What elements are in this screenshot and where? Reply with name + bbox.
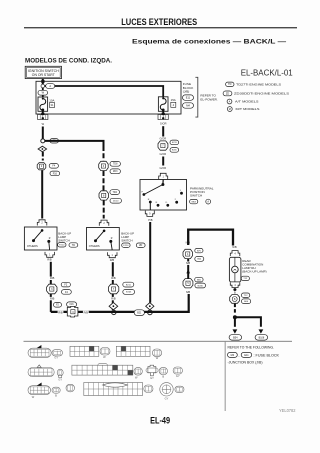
svg-text:R/B: R/B (111, 297, 116, 301)
svg-text:TD: TD (72, 244, 75, 247)
svg-text:TD2: TD2 (113, 192, 118, 194)
svg-text:M4: M4 (231, 354, 235, 357)
svg-text:G/OR: G/OR (159, 152, 166, 156)
svg-text:R/B: R/B (47, 258, 52, 262)
svg-text:F16: F16 (53, 172, 58, 175)
svg-text:GY: GY (54, 356, 58, 360)
svg-text:R/B: R/B (50, 297, 55, 301)
svg-text:ZD10: ZD10 (113, 200, 119, 202)
svg-text:Esquema de conexiones — BACK/L: Esquema de conexiones — BACK/L — (132, 39, 286, 46)
svg-text:A: A (49, 84, 51, 88)
svg-text:E205: E205 (172, 150, 178, 152)
svg-text:(J/B): (J/B) (183, 90, 190, 94)
svg-text:SWITCH: SWITCH (190, 194, 202, 198)
svg-text:P/B: P/B (148, 218, 152, 222)
svg-text:R/B: R/B (58, 310, 63, 314)
svg-text:SWITCH: SWITCH (121, 238, 132, 242)
svg-text:15A: 15A (171, 98, 176, 102)
svg-text:G/OR: G/OR (159, 137, 166, 141)
svg-text:E11: E11 (244, 354, 249, 357)
svg-text:ZD: ZD (139, 244, 142, 247)
svg-text:EL-49: EL-49 (150, 415, 170, 425)
svg-text:ON OR START: ON OR START (32, 73, 55, 77)
svg-text:TD: TD (228, 83, 232, 86)
svg-text:B54: B54 (233, 336, 238, 339)
svg-text:OTHERS: OTHERS (27, 244, 38, 248)
svg-text:R/B: R/B (111, 276, 116, 280)
svg-text:M: M (229, 108, 231, 111)
svg-text:GY: GY (165, 396, 169, 400)
svg-text:B: B (162, 375, 164, 379)
svg-text:GY: GY (176, 374, 180, 378)
svg-text:E211: E211 (126, 284, 132, 286)
svg-text:ZD3: ZD3 (113, 171, 118, 173)
svg-text:B108: B108 (259, 336, 265, 339)
svg-text:R/B: R/B (84, 310, 89, 314)
svg-text:EL-POWER.: EL-POWER. (200, 97, 218, 101)
svg-text:GY: GY (150, 376, 154, 380)
svg-text:E205: E205 (126, 292, 132, 294)
svg-text:B206: B206 (198, 285, 204, 287)
svg-text:B: B (55, 393, 57, 397)
svg-text:OTHERS: OTHERS (89, 244, 100, 248)
svg-text:LUCES EXTERIORES: LUCES EXTERIORES (121, 17, 197, 28)
svg-text:E11: E11 (186, 96, 191, 100)
svg-text:G/OR: G/OR (159, 166, 166, 170)
svg-text:R/B: R/B (50, 276, 55, 280)
svg-text:REFER TO THE FOLLOWING.: REFER TO THE FOLLOWING. (228, 346, 275, 350)
svg-text:(BACK-UP LAMP): (BACK-UP LAMP) (242, 269, 266, 273)
svg-text:ZD30DDTi ENGINE MODELS: ZD30DDTi ENGINE MODELS (234, 92, 289, 96)
svg-text:M4: M4 (186, 103, 190, 107)
svg-text:N/B: N/B (186, 290, 191, 294)
svg-text:B21: B21 (137, 312, 142, 314)
svg-text:B: B (234, 291, 236, 295)
svg-text:10A: 10A (49, 98, 54, 102)
svg-text:F210: F210 (59, 245, 65, 247)
svg-text:N/B: N/B (186, 261, 191, 265)
svg-text:EL-BACK/L-01: EL-BACK/L-01 (241, 68, 293, 78)
svg-text:R/B: R/B (110, 258, 115, 262)
svg-text:SWITCH: SWITCH (58, 238, 69, 242)
svg-text:M/T MODELS: M/T MODELS (236, 107, 260, 111)
svg-text:MODELOS DE COND. IZQDA.: MODELOS DE COND. IZQDA. (25, 57, 112, 64)
svg-text:N/B: N/B (232, 245, 237, 249)
svg-text:G/OR: G/OR (160, 122, 167, 126)
svg-text:,: , (239, 353, 240, 357)
svg-text:F210: F210 (123, 245, 129, 247)
svg-text:-JUNCTION BOX (J/B): -JUNCTION BOX (J/B) (228, 361, 263, 365)
svg-text:TD27Ti ENGINE MODELS: TD27Ti ENGINE MODELS (236, 83, 281, 87)
svg-text:ZD: ZD (226, 92, 230, 95)
svg-text:GY: GY (58, 377, 62, 381)
svg-text:YEL0782: YEL0782 (279, 408, 296, 413)
svg-text:TD8: TD8 (113, 164, 118, 166)
svg-text:A/T MODELS: A/T MODELS (235, 100, 259, 104)
svg-text:: FUSE BLOCK: : FUSE BLOCK (254, 353, 280, 357)
